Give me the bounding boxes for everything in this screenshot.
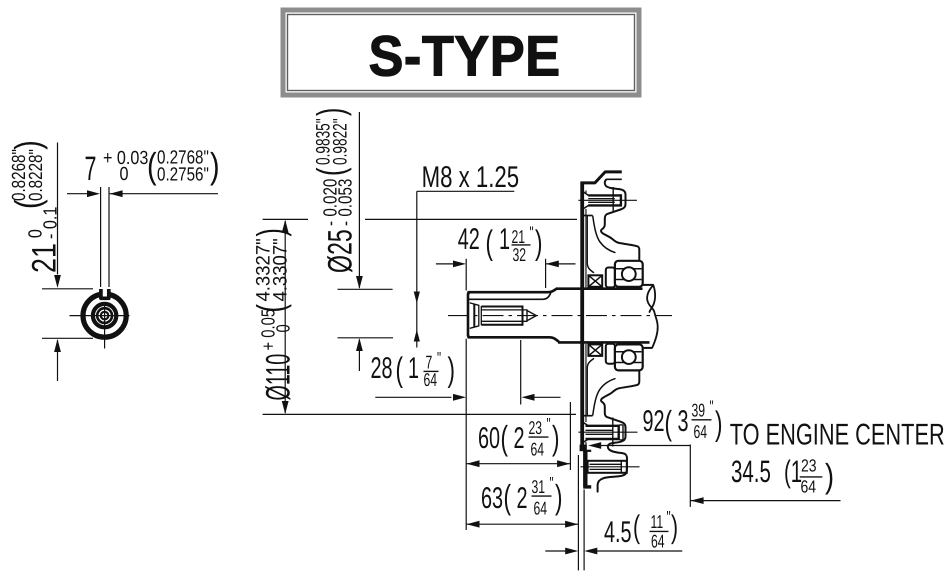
svg-text:): ) [535,224,542,262]
svg-text:(: ( [665,405,673,443]
svg-text:S-TYPE: S-TYPE [368,25,560,89]
svg-text:TO ENGINE CENTER: TO ENGINE CENTER [730,418,945,451]
svg-text:- 0.1: - 0.1 [41,207,62,239]
svg-text:): ) [715,405,722,443]
svg-text:2: 2 [513,422,524,455]
svg-text:(: ( [251,304,293,313]
svg-text:64: 64 [800,476,816,496]
svg-text:4.5: 4.5 [604,516,632,549]
svg-text:): ) [210,145,220,186]
svg-text:): ) [825,458,834,496]
svg-text:(1: (1 [784,454,802,489]
svg-text:(: ( [395,351,403,389]
svg-text:1: 1 [499,223,510,256]
svg-text:Ø110: Ø110 [260,354,298,401]
svg-text:2: 2 [517,482,528,515]
svg-text:23: 23 [801,456,817,476]
svg-text:64: 64 [651,531,665,552]
svg-text:": " [667,507,671,527]
svg-text:): ) [7,140,48,150]
svg-text:7: 7 [85,150,97,188]
svg-text:42: 42 [458,223,480,256]
svg-text:0: 0 [274,324,295,332]
svg-text:4.3307": 4.3307" [270,238,292,301]
svg-text:(: ( [147,145,157,186]
svg-text:60: 60 [478,422,500,455]
svg-text:23: 23 [529,417,543,438]
svg-text:(: ( [311,167,353,176]
svg-text:): ) [311,108,353,116]
svg-text:): ) [251,228,293,236]
svg-text:": " [546,414,550,434]
svg-text:- 0.053: - 0.053 [336,179,357,226]
svg-text:0.2756": 0.2756" [157,165,209,186]
svg-text:M8 x 1.25: M8 x 1.25 [422,161,519,194]
svg-text:Ø25: Ø25 [322,229,360,273]
svg-text:": " [550,473,554,493]
svg-text:": " [437,348,441,368]
svg-text:64: 64 [694,421,708,442]
svg-text:11: 11 [651,511,664,532]
svg-text:0: 0 [120,164,129,185]
svg-text:28: 28 [370,352,392,385]
svg-text:": " [710,397,714,417]
svg-text:32: 32 [513,244,527,265]
svg-text:64: 64 [531,439,545,460]
svg-text:0.8228": 0.8228" [26,149,47,201]
svg-text:92: 92 [642,405,664,438]
svg-text:(: ( [633,509,640,545]
svg-text:1: 1 [408,352,419,385]
svg-text:): ) [552,420,559,458]
svg-text:(: ( [500,420,508,458]
svg-text:): ) [447,351,454,389]
svg-text:(: ( [486,224,494,262]
svg-text:21: 21 [26,243,64,273]
svg-text:63: 63 [481,482,503,515]
svg-text:34.5: 34.5 [731,454,771,489]
svg-text:0.9822": 0.9822" [330,118,352,165]
svg-text:64: 64 [424,369,438,390]
svg-text:): ) [555,479,562,517]
svg-text:": " [529,223,533,243]
svg-text:): ) [671,509,678,545]
svg-text:39: 39 [692,400,706,421]
svg-text:31: 31 [531,476,545,497]
svg-text:(: ( [504,479,512,517]
svg-text:3: 3 [678,405,689,438]
svg-text:64: 64 [533,498,547,519]
